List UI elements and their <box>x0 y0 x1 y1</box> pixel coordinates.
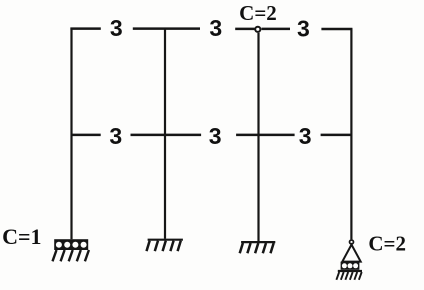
svg-text:3: 3 <box>209 123 222 149</box>
support 4 ground line <box>338 270 362 272</box>
top beam segment to hinge <box>235 28 254 31</box>
svg-text:3: 3 <box>299 123 312 149</box>
column 3 <box>257 33 259 242</box>
hinge circle at bottom of column 4 <box>350 240 354 244</box>
top beam segment to col4 corner <box>321 28 352 31</box>
svg-text:3: 3 <box>110 15 123 41</box>
support 4 hatching <box>336 272 361 280</box>
support 1 hatching <box>53 250 89 261</box>
support 1: roller block under column 1 <box>54 239 88 250</box>
top beam segment col1-corner to first gap <box>70 27 100 30</box>
support 3: fixed base under column 3 <box>241 241 275 243</box>
hinge circle at top of column 3 <box>255 27 260 32</box>
svg-text:3: 3 <box>209 15 222 41</box>
support 4: pinned triangle <box>342 245 360 262</box>
support 4 roller block <box>341 262 360 270</box>
svg-text:C=2: C=2 <box>368 231 406 255</box>
svg-text:C=1: C=1 <box>2 224 41 249</box>
support 2 hatching <box>147 241 181 252</box>
column 4 (right) <box>350 28 352 239</box>
column 1 (left) <box>70 28 72 240</box>
svg-text:C=2: C=2 <box>239 1 277 25</box>
support 3 hatching <box>240 243 274 253</box>
column 2 <box>164 28 166 239</box>
support 2: fixed base under column 2 <box>148 239 183 241</box>
middle beam segment from col1 <box>72 134 101 137</box>
middle beam segment across col2 <box>131 134 202 137</box>
middle beam segment to col4 <box>321 134 352 137</box>
top beam segment hinge to gap <box>262 28 291 31</box>
svg-text:3: 3 <box>109 123 122 149</box>
svg-text:3: 3 <box>297 15 310 41</box>
top beam segment between 3 labels <box>133 27 200 30</box>
middle beam segment across col3 <box>236 134 295 137</box>
